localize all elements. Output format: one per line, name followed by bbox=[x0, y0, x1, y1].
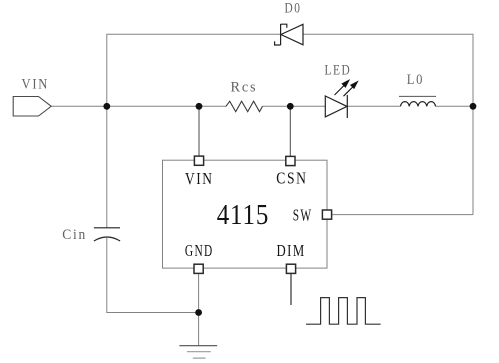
LED D1 bbox=[325, 95, 347, 118]
node junction at right rail bbox=[470, 103, 477, 110]
wire CSN pin stub bbox=[289, 106, 291, 156]
wire top rail from left vertical to D0 anode bbox=[107, 34, 281, 106]
LED light arrow 1 bbox=[335, 80, 349, 95]
pin SW bbox=[322, 210, 331, 219]
svg-text:DIM: DIM bbox=[276, 242, 305, 260]
capacitor Cin bbox=[94, 227, 120, 229]
diode D0 (schottky) bbox=[275, 24, 303, 45]
svg-text:GND: GND bbox=[185, 242, 214, 261]
wire inductor to right rail bbox=[436, 105, 474, 107]
wire GND pin stub down to ground bbox=[198, 273, 200, 345]
node junction at VIN pin stub bbox=[196, 103, 203, 110]
node junction at ground net bbox=[195, 309, 202, 316]
IC U1 4115 body bbox=[163, 160, 328, 268]
svg-text:VIN: VIN bbox=[185, 170, 214, 189]
svg-text:CSN: CSN bbox=[276, 169, 307, 188]
svg-text:L0: L0 bbox=[407, 71, 424, 87]
node junction at left vertical bbox=[103, 103, 110, 110]
resistor Rcs bbox=[226, 101, 263, 111]
wire left vertical down to Cin bbox=[106, 106, 108, 227]
wire main rail VIN tip to resistor bbox=[51, 105, 226, 107]
svg-text:VIN: VIN bbox=[22, 75, 49, 91]
svg-text:Cin: Cin bbox=[62, 226, 87, 243]
LED light arrow 2 bbox=[344, 82, 358, 97]
node junction at CSN pin stub bbox=[287, 103, 294, 110]
inductor L0 bbox=[401, 102, 436, 107]
wire VIN pin stub bbox=[198, 106, 200, 156]
wire from D0 cathode to top-right corner and down to SW net bbox=[303, 34, 473, 214]
wire resistor to LED anode bbox=[263, 105, 326, 107]
pin GND bbox=[194, 264, 203, 273]
pin DIM bbox=[286, 264, 295, 273]
svg-text:D0: D0 bbox=[285, 0, 302, 16]
svg-text:SW: SW bbox=[293, 206, 313, 225]
svg-text:LED: LED bbox=[325, 61, 352, 78]
wire Cin bottom to ground net bbox=[107, 238, 199, 313]
PWM waveform on DIM bbox=[306, 298, 381, 325]
pin VIN bbox=[194, 156, 203, 165]
connector VIN bbox=[13, 97, 51, 117]
wire DIM pin stub bbox=[290, 274, 292, 305]
ground bbox=[179, 346, 217, 358]
svg-text:4115: 4115 bbox=[217, 199, 269, 231]
wire SW pin to right rail bbox=[332, 214, 473, 216]
svg-text:Rcs: Rcs bbox=[230, 79, 257, 95]
pin CSN bbox=[286, 156, 295, 165]
wire LED cathode to inductor bbox=[347, 105, 400, 107]
